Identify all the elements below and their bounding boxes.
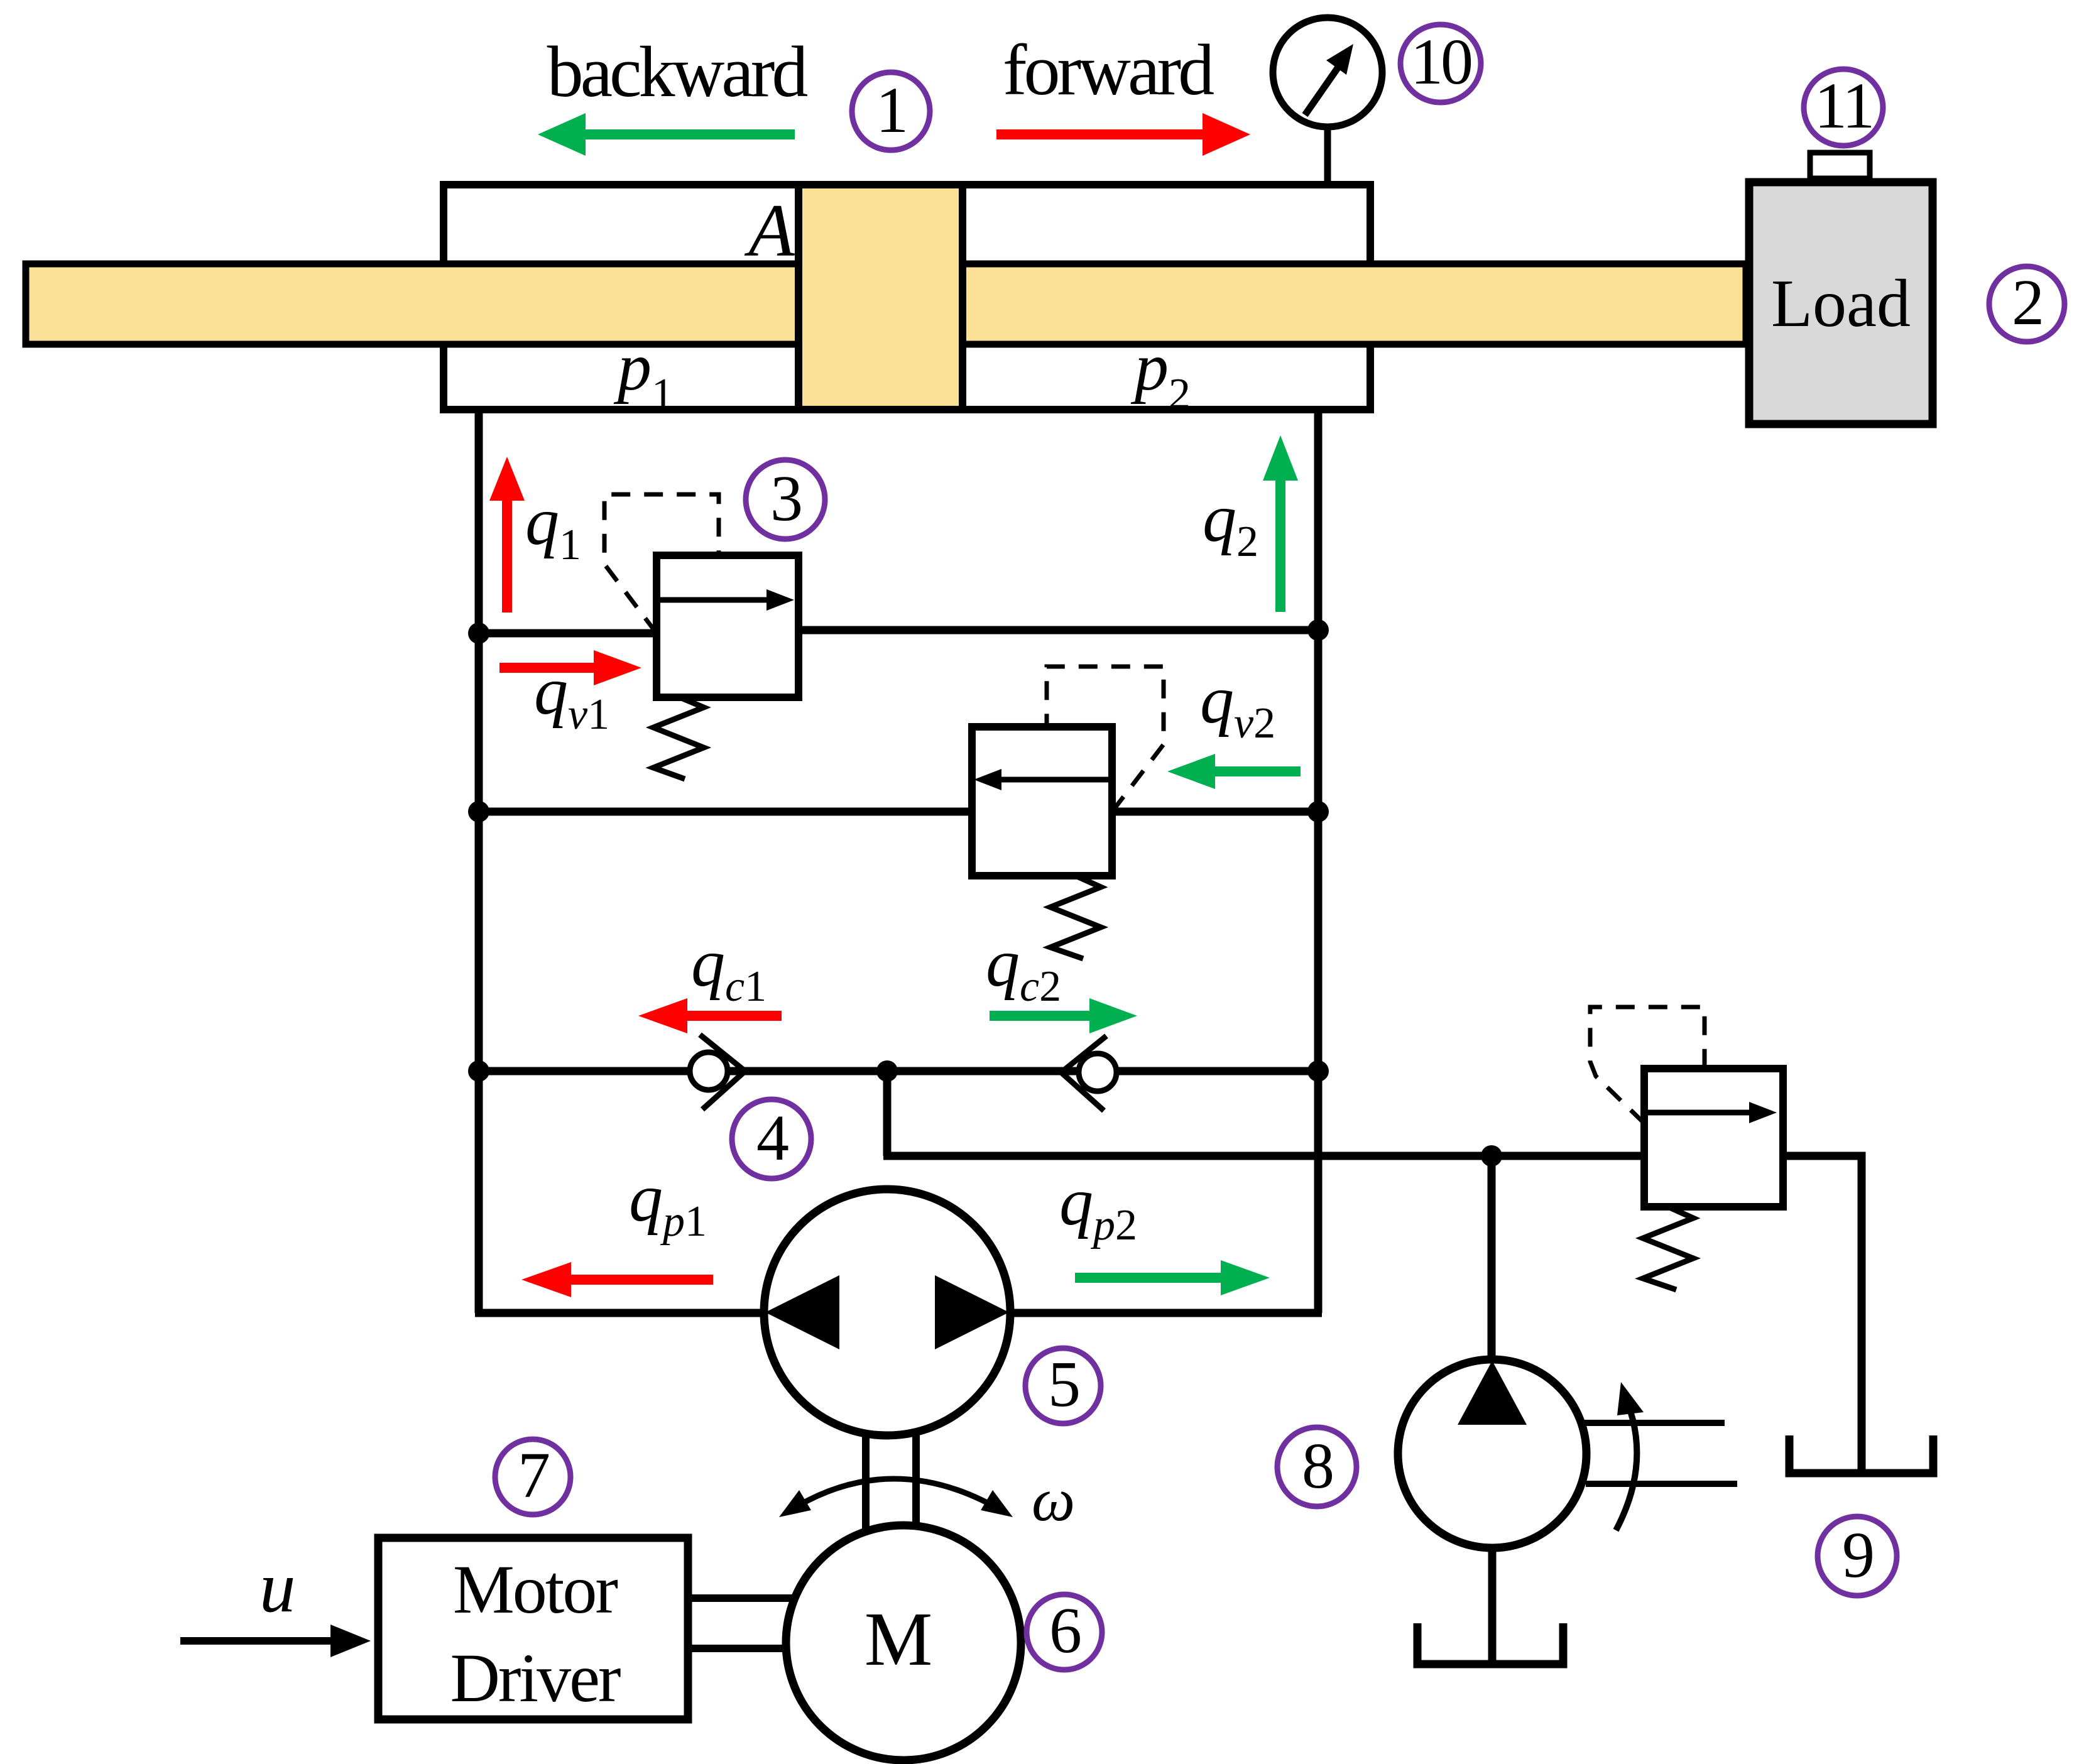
svg-text:3: 3 [770, 462, 800, 535]
piston [799, 185, 963, 410]
svg-text:qp2: qp2 [1059, 1165, 1137, 1249]
motor driver box 7 [378, 1538, 688, 1719]
svg-text:M: M [865, 1597, 932, 1682]
node: left pipe / valve3 line [468, 623, 489, 644]
label circle 5 [1025, 1348, 1101, 1424]
wire: valve 3 line (left segment) [479, 629, 660, 638]
charge pump drain to tank [1488, 1547, 1497, 1665]
cylinder barrel 1 [444, 185, 1370, 410]
node: left pipe / valve v2 line [468, 801, 489, 822]
svg-text:q2: q2 [1203, 481, 1258, 566]
svg-text:10: 10 [1410, 26, 1471, 98]
svg-text:6: 6 [1049, 1594, 1080, 1667]
load block 2 [1749, 182, 1933, 424]
svg-text:forward: forward [1003, 30, 1214, 111]
label circle 11 [1804, 69, 1883, 146]
label circle 7 [495, 1439, 570, 1515]
electric motor 6 [786, 1525, 1021, 1760]
wire: valve v2 line (left segment) [479, 808, 972, 816]
svg-text:7: 7 [518, 1439, 548, 1511]
svg-text:qp1: qp1 [629, 1161, 707, 1246]
svg-text:qc1: qc1 [691, 926, 766, 1011]
label circle 9 [1818, 1516, 1897, 1596]
wire: right pipe from cylinder port p2 [1314, 410, 1323, 1313]
svg-text:Driver: Driver [450, 1640, 620, 1716]
tank 9 [1789, 1435, 1933, 1473]
svg-text:u: u [259, 1547, 296, 1627]
charge pump rotation arc [1616, 1382, 1644, 1530]
wire: drop to charge pump 8 [1488, 1156, 1496, 1361]
node: left pipe / check line [468, 1060, 489, 1082]
label circle 4 [732, 1099, 811, 1179]
check valve C1 [690, 1035, 745, 1109]
accelerometer block 11 [1810, 153, 1870, 178]
arrow qp2 (green, right) [1075, 1260, 1270, 1295]
svg-text:qv2: qv2 [1200, 663, 1275, 748]
label circle 3 [746, 460, 825, 539]
main pump 5 [764, 1189, 1010, 1435]
tank under charge pump [1417, 1623, 1563, 1664]
arrow q2 (green, up) [1263, 435, 1298, 612]
wire: check valve line [479, 1067, 1318, 1075]
wire: auxiliary supply line to relief valve [883, 1152, 1648, 1160]
label circle 1 [852, 72, 930, 150]
wires driver to motor [688, 1598, 796, 1648]
svg-text:ω: ω [1032, 1466, 1075, 1534]
check valve C2 [1061, 1036, 1116, 1111]
svg-text:A: A [744, 188, 795, 272]
svg-text:Load: Load [1771, 266, 1911, 341]
arrow qv2 (green, left) [1167, 754, 1301, 789]
omega rotation arc [779, 1479, 1013, 1517]
wire: valve 3 line (right segment) [793, 626, 1318, 634]
svg-text:1: 1 [876, 74, 906, 146]
pressure gauge 10 [1273, 18, 1382, 127]
pilot dashed line valve v2 [1047, 667, 1164, 812]
arrow q1 (red, up) [489, 457, 525, 612]
wire: gauge stem [1324, 123, 1331, 183]
svg-text:11: 11 [1814, 70, 1872, 142]
svg-text:2: 2 [2012, 266, 2042, 339]
label circle 6 [1027, 1594, 1102, 1670]
text Motor Driver [450, 1551, 620, 1716]
piston rod [26, 264, 1746, 344]
wire: left pipe from cylinder port p1 [475, 410, 483, 1313]
label circle 2 [1989, 266, 2065, 342]
node: aux line / charge pump [1481, 1145, 1502, 1167]
wire: valve 9 to tank [1779, 1156, 1862, 1470]
wire: drop from check line junction [883, 1071, 892, 1156]
spring valve v2 [1050, 876, 1101, 959]
label circle 10 [1400, 24, 1481, 102]
node: right pipe / valve v2 line [1307, 801, 1329, 822]
svg-text:qc2: qc2 [986, 926, 1061, 1011]
node: check line drop junction [876, 1060, 898, 1082]
svg-text:Motor: Motor [453, 1551, 618, 1628]
arrow qc1 (red, left) [638, 998, 782, 1033]
svg-text:8: 8 [1302, 1430, 1333, 1502]
arrow forward (red) [996, 113, 1250, 156]
node: right pipe / valve3 line [1307, 619, 1329, 641]
charge pump port lines [1583, 1423, 1737, 1484]
wire: bottom pump line (right) [1007, 1309, 1322, 1317]
pilot dashed line valve 3 [604, 494, 719, 633]
relief valve 9 [1644, 1069, 1783, 1207]
spring valve 9 [1643, 1207, 1693, 1290]
shaft between pump and motor [866, 1435, 916, 1538]
arrow backward (green) [538, 113, 795, 156]
charge pump 8 [1398, 1359, 1586, 1548]
pilot dashed line valve 9 [1590, 1007, 1705, 1123]
svg-text:q1: q1 [525, 484, 581, 569]
svg-text:9: 9 [1842, 1519, 1872, 1591]
node: right pipe / check line [1307, 1060, 1329, 1082]
arrow u input [180, 1625, 371, 1657]
arrow qc2 (green, right) [990, 998, 1137, 1033]
arrow qp1 (red, left) [521, 1262, 713, 1297]
svg-text:5: 5 [1048, 1348, 1078, 1420]
relief valve v2 [972, 727, 1112, 876]
svg-text:4: 4 [756, 1102, 788, 1174]
arrow qv1 (red, right) [499, 650, 641, 685]
wire: valve v2 line (right segment) [1109, 808, 1318, 816]
spring valve 3 [653, 697, 704, 779]
wire: bottom pump line (left) [475, 1309, 768, 1317]
label circle 8 [1277, 1427, 1356, 1506]
svg-text:backward: backward [547, 32, 808, 112]
relief valve 3 [657, 555, 799, 697]
